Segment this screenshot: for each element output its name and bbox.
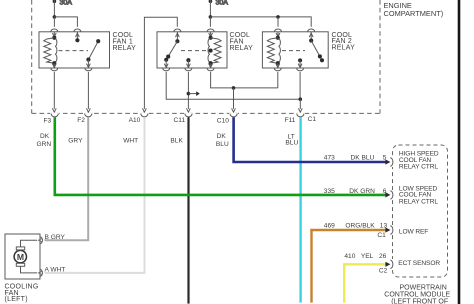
relay K2 switch common node [175, 39, 179, 43]
relay K1 coil feed arrow [53, 32, 55, 37]
cooling fan caption [5, 284, 39, 304]
svg-text:M: M [17, 252, 24, 262]
relay K3 switch common node [309, 39, 313, 43]
wire relay K1 switch pin to connector F2 [87, 72, 89, 109]
wire fuse2 branch to relay K3 pins [210, 17, 311, 27]
svg-text:C11: C11 [174, 117, 186, 124]
wire fuse1 to relay K1 coil pin [53, 17, 55, 27]
relay K2 armature dashed link [181, 50, 207, 52]
relay K3 bottom pin cups [274, 68, 281, 71]
svg-text:30A: 30A [60, 0, 73, 7]
relay K3 switch blade [311, 41, 322, 61]
wire riser from connector A10 to relay K2 switch feed pin [144, 17, 177, 109]
svg-text:CONTROL MODULE: CONTROL MODULE [384, 291, 450, 298]
connector cup F2 [85, 114, 92, 117]
connector cup A10 [141, 114, 148, 117]
svg-text:DK: DK [217, 133, 227, 140]
PCM pin function labels [398, 151, 440, 267]
relay K3 label [332, 32, 356, 52]
svg-text:C1: C1 [308, 116, 317, 123]
relay K2 coil top node [209, 36, 213, 40]
svg-text:473: 473 [324, 155, 335, 162]
svg-text:5: 5 [383, 155, 387, 162]
wire end arrowheads at PCM [385, 159, 390, 267]
connector row arrowheads [52, 108, 302, 112]
relay K2 NO contact node and arrow to pin [186, 58, 190, 62]
relay K1 coil top node [52, 36, 56, 40]
relay K3 coil resistor zigzag [267, 38, 278, 63]
relay K2 switch blade [166, 41, 177, 60]
svg-text:335: 335 [324, 188, 335, 195]
motor pin labels [45, 234, 66, 274]
wire fuse2 to relay K2 coil pin [209, 17, 211, 27]
svg-text:B GRY: B GRY [45, 234, 66, 241]
svg-text:(LEFT): (LEFT) [5, 296, 28, 303]
svg-text:469: 469 [324, 222, 335, 229]
relay K3 coil winding arcs [279, 39, 281, 62]
relay K2 coil mid node [209, 49, 213, 53]
wire DK GRN 335 (F3 to PCM pin 6) [55, 117, 387, 195]
svg-text:COMPARTMENT): COMPARTMENT) [384, 9, 444, 18]
relay K2 coil bottom node [209, 61, 213, 65]
svg-text:WHT: WHT [123, 137, 138, 144]
relay K3 coil bottom node [276, 61, 280, 65]
wire ORG/BLK 469 (PCM pin 13) [312, 230, 388, 303]
motor pin arrowheads [39, 238, 43, 242]
svg-text:RELAY: RELAY [113, 45, 137, 52]
relay K3 armature dashed link [282, 50, 305, 52]
svg-text:F3: F3 [44, 117, 52, 124]
relay K2 coil feed arrow [210, 32, 212, 37]
relay K3 COOL FAN 2 RELAY box [262, 32, 328, 68]
node: C10 junction [232, 86, 236, 90]
relay K1 switch blade [88, 41, 98, 59]
relay K1 coil winding arcs [55, 39, 57, 62]
wire relay K3 coil pin down to C10 bus [277, 72, 279, 88]
svg-text:DK: DK [40, 133, 50, 140]
relay K1 switch output arrow to pin [87, 60, 89, 68]
underhood fuse block dashed enclosure (ENGINE COMPARTMENT) [32, 0, 380, 113]
PCM pin 13 cup [390, 226, 393, 234]
PCM caption [384, 285, 450, 304]
node: fuse2 output junction [209, 15, 213, 19]
relay K2 coil resistor zigzag [211, 38, 222, 63]
svg-text:13: 13 [380, 222, 388, 229]
PCM pin 26 cup [390, 260, 393, 268]
svg-text:F2: F2 [77, 117, 85, 124]
svg-text:GRY: GRY [68, 137, 83, 144]
svg-text:YEL: YEL [361, 253, 374, 260]
connector row labels [44, 116, 317, 124]
connector cup F3 [51, 114, 58, 117]
relay K2 coil ground-side arrow to pin [210, 63, 212, 68]
svg-text:DK BLU: DK BLU [351, 155, 375, 162]
relay K1 armature dashed link [59, 50, 89, 52]
wire C10 node down to connector C10 [233, 88, 235, 109]
wire relay K2 NO pin to connector C11 [187, 72, 189, 109]
wire F11 node down to connector F11 [299, 99, 301, 109]
connector cup C11 [185, 114, 192, 117]
relay K3 coil feed arrow [277, 32, 279, 37]
svg-text:DK GRN: DK GRN [349, 188, 375, 195]
svg-text:RELAY: RELAY [230, 45, 254, 52]
svg-text:C10: C10 [217, 117, 229, 124]
node: F11 junction [299, 97, 303, 101]
wire relay K3 switch pin down to F11 node [299, 72, 301, 99]
fuse 30A (left) [53, 0, 57, 17]
svg-text:ORG/BLK: ORG/BLK [345, 222, 375, 229]
relay K2 switch common pin arrow (up) [176, 32, 178, 42]
wire colour labels [37, 133, 299, 148]
svg-text:RELAY: RELAY [332, 44, 356, 51]
svg-text:BLK: BLK [170, 137, 183, 144]
relay K2 switch output arrow to pin [165, 60, 167, 68]
PCM dashed box [393, 145, 448, 277]
relay K3 coil top node [276, 36, 280, 40]
relay K3 NO contact node and arrow to pin [298, 58, 302, 62]
wire GRY (F2 to cooling fan pin B) [45, 117, 89, 240]
motor M1 circle [14, 250, 26, 262]
connector cup C10 [230, 114, 237, 117]
svg-text:C2: C2 [379, 267, 388, 274]
PCM pin 5 cup [390, 158, 393, 166]
wire BLK (C11 ground) [187, 117, 189, 303]
svg-text:RELAY CTRL: RELAY CTRL [399, 164, 438, 171]
wire YEL 410 (PCM pin 26) [344, 264, 387, 302]
node: branch junction at relay K3 coil pin [276, 15, 280, 19]
svg-text:(LEFT FRONT OF: (LEFT FRONT OF [391, 298, 448, 304]
node: fuse1 output junction [53, 15, 57, 19]
relay K2 bottom pin cups [163, 68, 170, 71]
connector row cup breaks [50, 113, 305, 118]
svg-text:A WHT: A WHT [45, 267, 66, 274]
PCM pin 6 cup [390, 191, 393, 199]
wire DK BLU 473 (C10 to PCM pin 5) [234, 117, 387, 162]
svg-text:BLU: BLU [285, 139, 298, 146]
page edge rule (right) [458, 0, 461, 304]
relay K1 coil bottom node [52, 61, 56, 65]
relay K1 bottom pin cups [51, 68, 58, 71]
relay K2 COOL FAN RELAY box [157, 32, 227, 68]
relay K1 switch common pin arrow (up) [76, 32, 78, 41]
relay K2 label [230, 32, 254, 52]
wire relay K2 coil pin down and over to C10 node [211, 72, 278, 88]
wire LT BLU (F11) [299, 117, 301, 302]
relay K1 COOL FAN 1 RELAY box [39, 32, 110, 68]
wire stub arrow to other circuit [188, 93, 198, 95]
node: C11 branch junction [187, 92, 191, 96]
relay K1 switch common node [75, 38, 79, 42]
relay K3 switch common pin arrow (up) [310, 32, 312, 41]
motor pin A cup [40, 269, 42, 276]
svg-text:BLU: BLU [216, 141, 229, 148]
relay K3 top pin cups [275, 29, 282, 32]
wire relay K2 switch output pin down and over to F11 node [166, 72, 300, 99]
fuse 30A (right) [209, 0, 213, 17]
PCM cup edge breaks [391, 157, 396, 269]
relay K2 coil winding arcs [208, 39, 210, 62]
connector cup F11 [297, 114, 304, 117]
svg-text:ECT SENSOR: ECT SENSOR [398, 260, 440, 267]
circuit number and colour labels, right side [324, 155, 388, 275]
wire WHT (A10 to cooling fan pin A) [45, 117, 145, 273]
relay K1 coil resistor zigzag [44, 38, 55, 63]
svg-text:410: 410 [344, 253, 355, 260]
svg-text:GRN: GRN [37, 141, 52, 148]
svg-text:LOW REF: LOW REF [399, 228, 428, 235]
svg-text:RELAY CTRL: RELAY CTRL [399, 198, 438, 205]
wire stub down to relay K3 coil pin [277, 17, 279, 27]
engine compartment caption [384, 1, 444, 18]
relay K1 label [113, 32, 137, 52]
relay K2 top pin cups [174, 29, 181, 32]
svg-text:6: 6 [383, 188, 387, 195]
motor internal leads [21, 240, 38, 273]
svg-text:30A: 30A [216, 0, 229, 7]
svg-text:F11: F11 [285, 117, 296, 124]
motor pin B cup [40, 237, 42, 244]
svg-text:C1: C1 [377, 232, 386, 239]
svg-text:A10: A10 [129, 117, 141, 124]
relay K1 coil ground-side arrow to pin [53, 63, 55, 68]
motor brush blocks [16, 247, 24, 250]
svg-text:26: 26 [379, 253, 387, 260]
wire fuse1 branch to relay K1 switch pin [54, 17, 77, 27]
relay K1 top pin cups [51, 29, 58, 32]
cooling fan motor box [5, 234, 40, 279]
relay K3 coil ground-side arrow to pin [277, 63, 279, 68]
wire relay K1 coil pin to connector F3 [53, 72, 55, 109]
